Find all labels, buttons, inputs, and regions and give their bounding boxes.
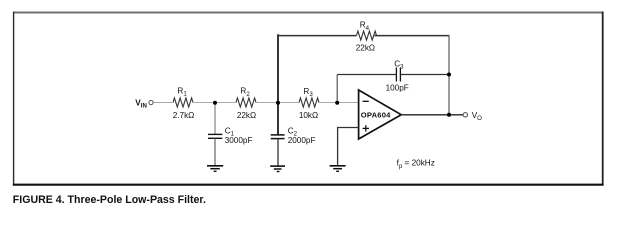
svg-text:R1: R1 xyxy=(177,86,187,97)
svg-text:fp = 20kHz: fp = 20kHz xyxy=(397,159,435,170)
svg-text:C3: C3 xyxy=(394,59,404,70)
svg-text:VO: VO xyxy=(472,111,482,122)
svg-text:R3: R3 xyxy=(303,87,313,98)
svg-text:2000pF: 2000pF xyxy=(288,136,316,145)
svg-text:3000pF: 3000pF xyxy=(225,136,253,145)
svg-text:R2: R2 xyxy=(240,87,250,98)
svg-text:22kΩ: 22kΩ xyxy=(237,111,256,120)
svg-text:22kΩ: 22kΩ xyxy=(356,44,375,53)
svg-text:VIN: VIN xyxy=(135,99,147,110)
svg-text:OPA604: OPA604 xyxy=(361,111,391,120)
svg-text:10kΩ: 10kΩ xyxy=(299,111,318,120)
svg-text:R4: R4 xyxy=(360,21,370,32)
svg-text:100pF: 100pF xyxy=(386,83,409,92)
svg-text:FIGURE 4. Three-Pole Low-Pass: FIGURE 4. Three-Pole Low-Pass Filter. xyxy=(13,194,206,206)
svg-text:2.7kΩ: 2.7kΩ xyxy=(173,111,195,120)
